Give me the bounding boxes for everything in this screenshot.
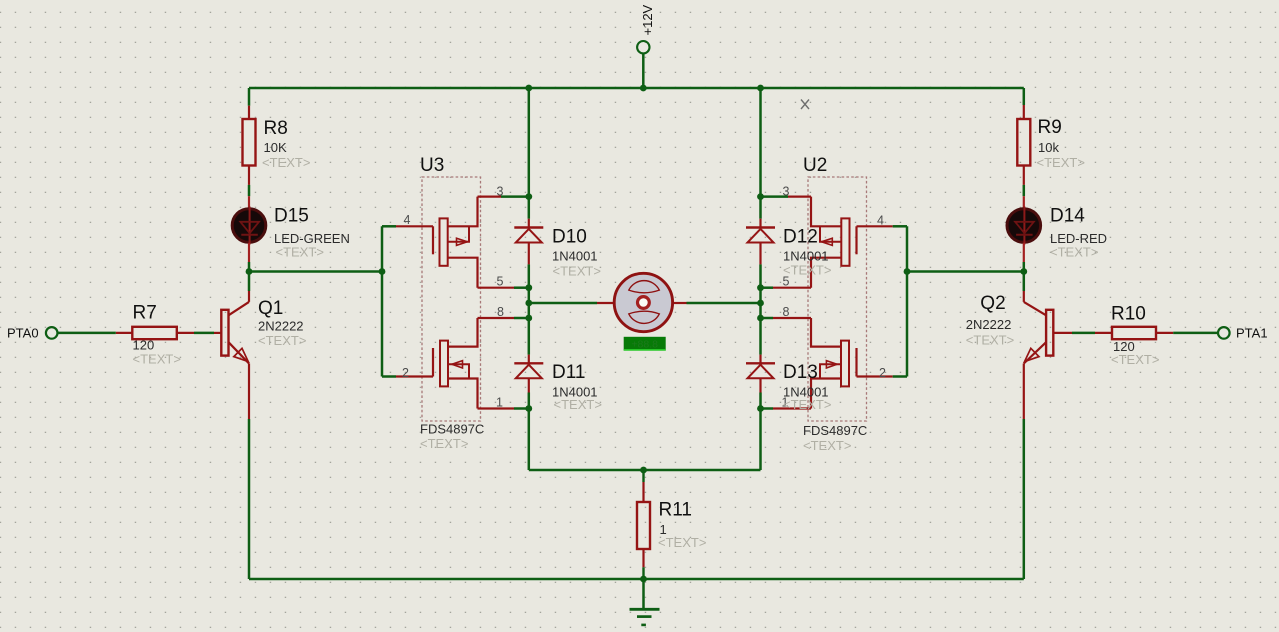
resistor R7 [116, 303, 194, 367]
resistor R8 [243, 106, 311, 185]
wire motor left [529, 302, 597, 305]
svg-text:2N2222: 2N2222 [966, 317, 1012, 332]
wire Q2 base to R10 [1072, 332, 1095, 335]
wire gate pin2 left (green) [382, 375, 396, 378]
node left collector [246, 268, 253, 275]
node pin1 left [525, 405, 532, 412]
svg-text:D11: D11 [552, 362, 585, 383]
wire node8 to D13 [759, 318, 762, 355]
svg-text:U2: U2 [803, 155, 827, 176]
motor [597, 273, 687, 331]
wire left node to gate bus [249, 270, 382, 273]
wire left gate bus [381, 226, 384, 376]
U2 pin 1 label [782, 396, 789, 410]
ground [630, 579, 660, 625]
svg-text:D15: D15 [274, 206, 309, 227]
U2 pin 1 lead [773, 407, 811, 409]
U2 label [803, 155, 827, 176]
U3 pin 3 label [497, 185, 504, 199]
diode D10 [514, 219, 601, 279]
U3 value FDS4897C [420, 422, 484, 437]
wire right bridge drop [759, 409, 762, 471]
transistor Q2 [966, 291, 1072, 419]
IC U2 dashed outline [808, 177, 867, 421]
U3 pin 8 lead [478, 317, 515, 319]
svg-text:1: 1 [496, 396, 503, 410]
wire D12 to node 5 right [759, 264, 762, 287]
U2 pin 4 label [877, 214, 884, 228]
wire R9 to D14 [1023, 185, 1026, 196]
resistor R11 [637, 470, 706, 579]
MOSFET U2 bottom (N-channel) [811, 318, 893, 409]
wire top rail [249, 87, 1024, 90]
wire Q1 emitter (green) [248, 419, 251, 579]
wire D11 to node 1 left [528, 393, 531, 409]
U2 pin 3 label [783, 185, 790, 199]
node pin5 left [525, 284, 532, 291]
svg-text:<TEXT>: <TEXT> [783, 397, 831, 412]
origin marker x [801, 100, 809, 110]
wire node8 to D11 [528, 318, 531, 355]
wire R7 to Q1 base [194, 332, 214, 335]
LED D15 [232, 196, 350, 262]
resistor R9 [1017, 105, 1085, 185]
svg-text:5: 5 [497, 275, 504, 289]
wire R10 to PTA1 [1173, 332, 1218, 335]
svg-text:PTA1: PTA1 [1236, 326, 1268, 341]
U3 pin 1 label [496, 396, 503, 410]
svg-text:U3: U3 [420, 155, 444, 176]
svg-text:<TEXT>: <TEXT> [133, 352, 181, 367]
svg-text:<TEXT>: <TEXT> [262, 155, 310, 170]
motor display [624, 337, 666, 351]
U3 pin 5 lead [478, 287, 515, 289]
node top rail / D12 branch [757, 85, 764, 92]
svg-text:<TEXT>: <TEXT> [783, 263, 831, 278]
svg-text:<TEXT>: <TEXT> [1050, 245, 1098, 260]
wire D10 to node 5 left [528, 264, 531, 287]
svg-text:2N2222: 2N2222 [258, 319, 304, 334]
svg-text:10k: 10k [1038, 140, 1059, 155]
U2 text property [803, 438, 851, 453]
wire motor-node8 left [528, 303, 531, 318]
node right collector [1020, 268, 1027, 275]
svg-text:<TEXT>: <TEXT> [554, 397, 602, 412]
wire R8 to D15 [248, 185, 251, 196]
wire D13 to node 1 right [759, 393, 762, 409]
svg-text:D13: D13 [783, 362, 818, 383]
wire PTA0 to R7 [58, 332, 116, 335]
wire top rail to R9 [1023, 88, 1026, 105]
svg-text:R9: R9 [1038, 117, 1062, 138]
transistor Q1 [214, 291, 306, 419]
U3 pin 2 label [402, 366, 409, 380]
U3 label [420, 155, 444, 176]
wire motor right [687, 302, 761, 305]
wire pin3 left [501, 195, 529, 198]
svg-text:<TEXT>: <TEXT> [803, 438, 851, 453]
svg-text:<TEXT>: <TEXT> [258, 333, 306, 348]
svg-text:1N4001: 1N4001 [552, 249, 598, 264]
svg-text:D14: D14 [1050, 206, 1085, 227]
node motor right [757, 300, 764, 307]
U3 text property [420, 436, 468, 451]
wire node3 to D10 [528, 197, 531, 219]
resistor R10 [1095, 304, 1173, 368]
svg-text:Q2: Q2 [980, 293, 1005, 314]
svg-text:8: 8 [783, 305, 790, 319]
svg-text:R11: R11 [659, 500, 692, 521]
svg-text:<TEXT>: <TEXT> [420, 436, 468, 451]
svg-text:PTA0: PTA0 [7, 326, 39, 341]
svg-text:Q1: Q1 [258, 298, 283, 319]
node top rail / D10 branch [525, 85, 532, 92]
svg-text:4: 4 [877, 214, 884, 228]
diode D11 [514, 355, 602, 412]
wire node5-motor left [528, 288, 531, 303]
wire gate pin2 right (green) [893, 375, 907, 378]
wire D14 to node [1023, 262, 1026, 272]
svg-text:10K: 10K [264, 140, 287, 155]
svg-text:D12: D12 [783, 227, 818, 248]
svg-text:120: 120 [133, 338, 155, 353]
IC U3 dashed outline [422, 177, 481, 421]
svg-text:<TEXT>: <TEXT> [553, 264, 601, 279]
wire top rail to R8 [248, 88, 251, 106]
svg-text:R7: R7 [133, 303, 157, 324]
node pin3 left [525, 193, 532, 200]
wire pin5 right [761, 286, 774, 289]
wire Q2 emitter (green) [1023, 419, 1026, 579]
MOSFET U3 bottom (N-channel) [396, 318, 478, 409]
wire gate pin4 left (green) [382, 225, 396, 228]
wire pin8 left [514, 317, 529, 320]
svg-text:<TEXT>: <TEXT> [1111, 352, 1159, 367]
diode D12 [746, 219, 831, 278]
U2 pin 5 lead [773, 287, 811, 289]
wire pin1 right [761, 407, 774, 410]
node left gate bus tee [379, 268, 386, 275]
wire top rail to node 3 left [528, 88, 531, 197]
node mid rail / R11 [640, 467, 647, 474]
MOSFET U2 top (P-channel) [811, 197, 893, 288]
node bottom rail / R11 [640, 576, 647, 583]
svg-text:R10: R10 [1111, 304, 1146, 325]
node pin8 right [757, 315, 764, 322]
wire gate pin4 right (green) [893, 225, 907, 228]
svg-text:D10: D10 [552, 227, 587, 248]
power terminal +12V [637, 4, 655, 88]
LED D14 [1007, 196, 1107, 262]
wire motor-node8 right [759, 303, 762, 318]
svg-text:FDS4897C: FDS4897C [803, 423, 867, 438]
wire pin1 left [514, 407, 529, 410]
U2 pin 2 label [879, 366, 886, 380]
svg-text:4: 4 [404, 213, 411, 227]
wire Q2 collector (green) [1023, 272, 1026, 292]
svg-text:<TEXT>: <TEXT> [658, 535, 706, 550]
wire pin3 right [761, 195, 789, 198]
U3 pin 8 label [497, 305, 504, 319]
wire mid rail [529, 469, 761, 472]
wire top rail to node 3 right [759, 88, 762, 197]
wire node3 to D12 [759, 197, 762, 219]
wire pin5 left [514, 286, 529, 289]
svg-text:+88.8: +88.8 [631, 338, 658, 350]
wire D15 to node [248, 262, 251, 272]
wire Q1 collector (green) [248, 272, 251, 292]
U2 pin 8 label [783, 305, 790, 319]
svg-text:2: 2 [879, 366, 886, 380]
U3 pin 1 lead [478, 407, 515, 409]
svg-text:<TEXT>: <TEXT> [1037, 155, 1085, 170]
wire right gate bus [906, 226, 909, 376]
node pin5 right [757, 284, 764, 291]
node pin8 left [525, 315, 532, 322]
diode D13 [746, 355, 831, 412]
node top rail / +12V [640, 85, 647, 92]
MOSFET U3 top (P-channel) [396, 197, 478, 288]
U2 pin 3 lead [788, 196, 811, 198]
node motor left [525, 300, 532, 307]
svg-text:+12V: +12V [640, 4, 655, 35]
node pin1 right [757, 405, 764, 412]
U2 pin 5 label [783, 275, 790, 289]
U2 value FDS4897C [803, 423, 867, 438]
svg-text:<TEXT>: <TEXT> [966, 333, 1014, 348]
wire right node to gate bus [907, 270, 1024, 273]
node right gate bus tee [904, 268, 911, 275]
svg-text:R8: R8 [264, 118, 288, 139]
svg-text:<TEXT>: <TEXT> [276, 245, 324, 260]
wire bottom rail [249, 578, 1024, 581]
svg-text:8: 8 [497, 305, 504, 319]
terminal PTA0 [7, 326, 58, 341]
terminal PTA1 [1218, 326, 1268, 341]
U3 pin 5 label [497, 275, 504, 289]
wire node5-motor right [759, 288, 762, 303]
U2 pin 8 lead [773, 317, 811, 319]
node pin3 right [757, 193, 764, 200]
svg-text:2: 2 [402, 366, 409, 380]
wire pin8 right [761, 317, 774, 320]
svg-text:1N4001: 1N4001 [783, 249, 829, 264]
wire left bridge drop [528, 409, 531, 471]
U3 pin 4 label [404, 213, 411, 227]
svg-text:FDS4897C: FDS4897C [420, 422, 484, 437]
U3 pin 3 lead [478, 196, 502, 198]
